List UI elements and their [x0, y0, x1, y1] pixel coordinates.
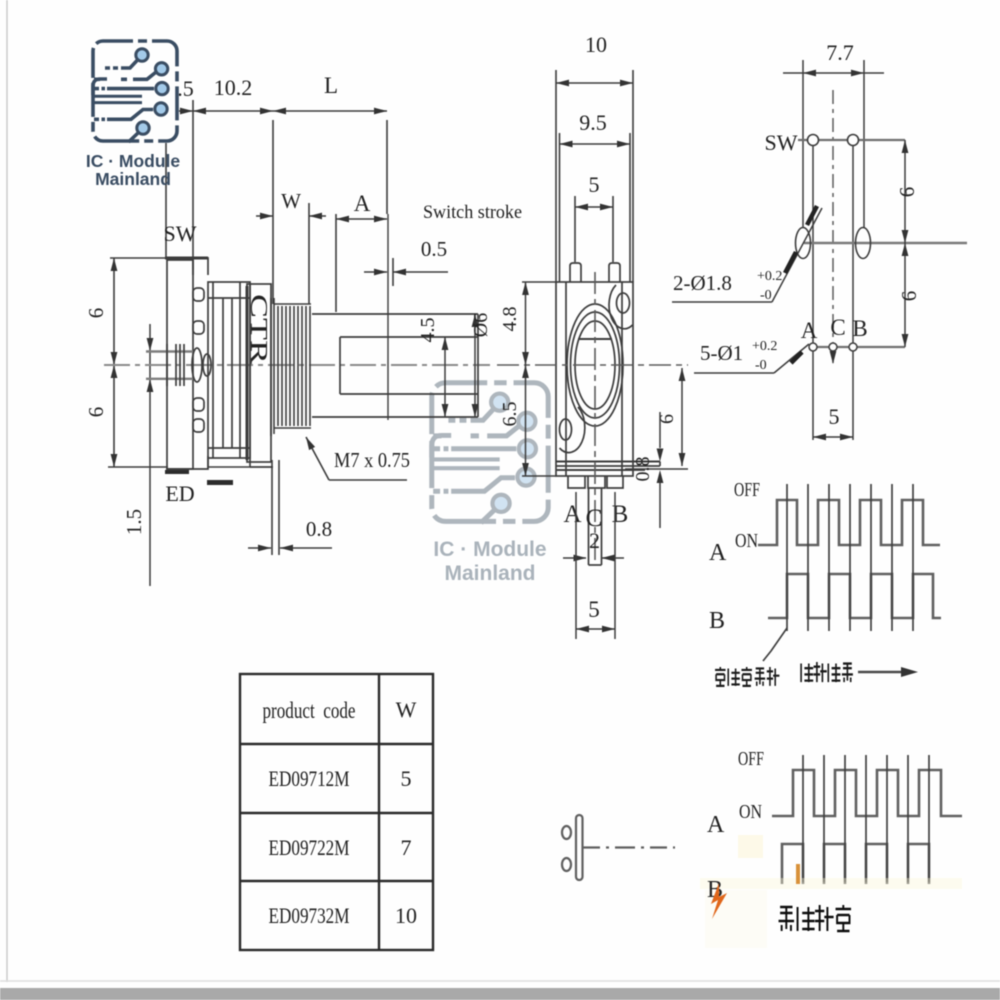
- svg-text:ED09712M: ED09712M: [269, 766, 350, 791]
- svg-text:B: B: [709, 608, 725, 634]
- svg-text:A: A: [801, 318, 818, 343]
- svg-text:L: L: [324, 73, 338, 98]
- svg-text:Mainland: Mainland: [444, 562, 535, 585]
- svg-text:2-Ø1.8: 2-Ø1.8: [673, 271, 732, 295]
- svg-text:A: A: [707, 812, 725, 838]
- svg-text:6: 6: [895, 187, 919, 198]
- svg-text:5-Ø1: 5-Ø1: [700, 341, 743, 365]
- svg-text:0.8: 0.8: [306, 517, 332, 541]
- svg-text:2: 2: [589, 528, 600, 553]
- svg-text:6: 6: [84, 308, 108, 319]
- svg-text:+0.2: +0.2: [752, 339, 777, 354]
- svg-text:Ø6: Ø6: [470, 313, 492, 337]
- svg-text:IC · Module: IC · Module: [433, 538, 546, 561]
- svg-text:6.5: 6.5: [499, 402, 521, 427]
- svg-text:10.2: 10.2: [214, 75, 253, 100]
- svg-text:0.5: 0.5: [421, 237, 447, 261]
- svg-text:W: W: [396, 697, 417, 722]
- svg-text:ON: ON: [739, 801, 762, 823]
- svg-text:ED09722M: ED09722M: [269, 835, 350, 860]
- svg-text:10: 10: [395, 903, 417, 928]
- svg-text:7.7: 7.7: [826, 40, 854, 65]
- svg-text:B: B: [612, 501, 629, 528]
- svg-text:Mainland: Mainland: [95, 169, 171, 189]
- svg-text:9.5: 9.5: [579, 110, 607, 135]
- svg-text:OFF: OFF: [738, 748, 764, 770]
- svg-text:SW: SW: [765, 130, 798, 155]
- svg-text:ED09732M: ED09732M: [269, 903, 350, 928]
- svg-text:ON: ON: [735, 530, 758, 552]
- svg-text:0.8: 0.8: [632, 457, 654, 482]
- svg-text:-0: -0: [760, 288, 772, 303]
- svg-text:+0.2: +0.2: [757, 269, 782, 284]
- svg-text:product code: product code: [263, 698, 356, 723]
- svg-text:6: 6: [84, 407, 108, 418]
- svg-text:7: 7: [401, 835, 412, 860]
- svg-text:CTR: CTR: [246, 294, 273, 365]
- svg-text:4.5: 4.5: [417, 318, 439, 343]
- svg-text:B: B: [852, 316, 867, 341]
- svg-text:SW: SW: [164, 221, 197, 246]
- svg-text:5: 5: [401, 766, 412, 791]
- svg-text:OFF: OFF: [734, 479, 760, 501]
- svg-text:6: 6: [897, 291, 921, 302]
- svg-text:5: 5: [829, 404, 840, 429]
- svg-text:A: A: [563, 501, 581, 528]
- svg-text:10: 10: [585, 32, 607, 57]
- svg-text:-0: -0: [755, 358, 767, 373]
- svg-text:M7 x 0.75: M7 x 0.75: [334, 448, 410, 472]
- svg-text:4.8: 4.8: [499, 307, 521, 332]
- svg-text:ED: ED: [165, 481, 194, 506]
- svg-text:A: A: [709, 540, 727, 566]
- svg-text:5: 5: [589, 172, 600, 197]
- svg-text:C: C: [830, 315, 845, 340]
- svg-text:1.5: 1.5: [122, 509, 146, 535]
- svg-text:IC · Module: IC · Module: [86, 151, 181, 171]
- svg-text:A: A: [354, 191, 371, 216]
- svg-text:Switch stroke: Switch stroke: [423, 202, 522, 223]
- svg-text:5: 5: [588, 597, 600, 622]
- svg-text:W: W: [281, 189, 301, 213]
